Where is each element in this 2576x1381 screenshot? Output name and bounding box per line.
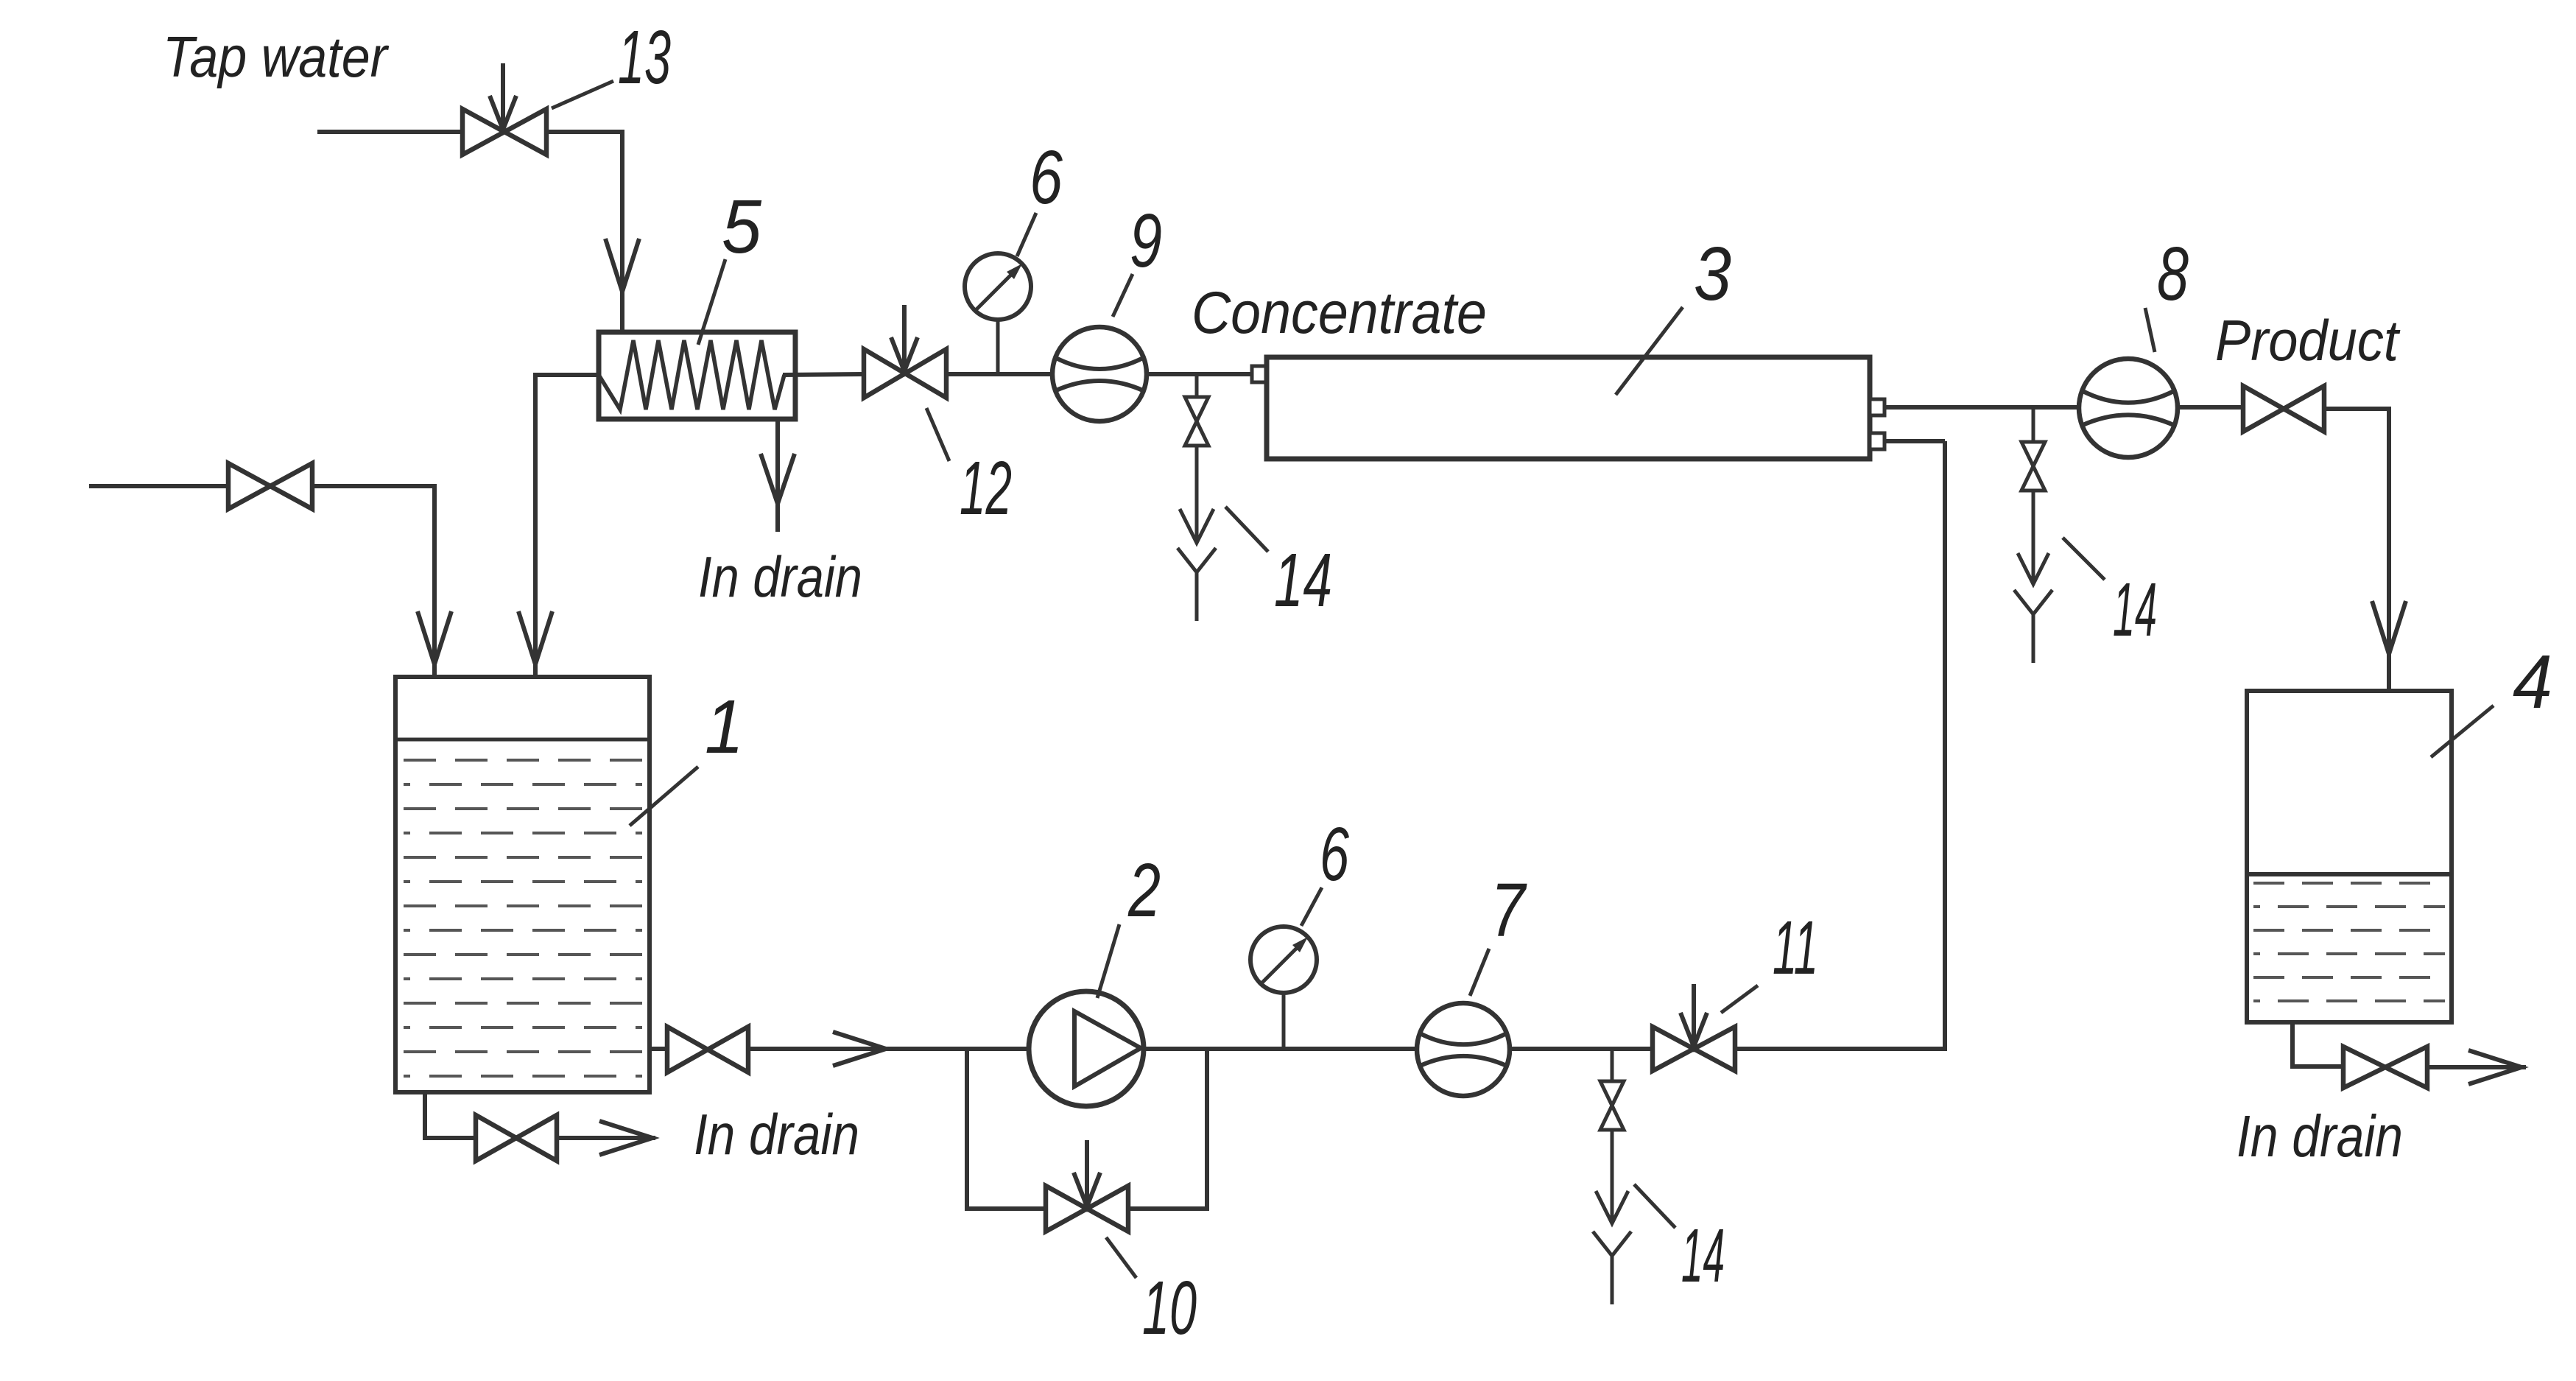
svg-text:9: 9 — [1130, 198, 1162, 283]
svg-text:6: 6 — [1030, 135, 1063, 219]
wire membrane lower port to return line — [1885, 439, 1945, 443]
tank 4 water dashes — [2253, 882, 2445, 885]
wire tank 4 drain out — [2428, 1065, 2526, 1069]
svg-text:11: 11 — [1773, 905, 1818, 990]
tank 1 shell — [395, 677, 650, 1092]
membrane module 3 shell — [1267, 357, 1870, 459]
wire to sample point (concentrate) — [1195, 446, 1199, 543]
flow arrow into tank 4 — [2372, 601, 2406, 654]
valve 13 stem arrow — [501, 63, 505, 130]
label 13 leader — [552, 81, 613, 108]
svg-text:In drain: In drain — [694, 1102, 859, 1167]
wire drain out — [557, 1136, 655, 1140]
svg-text:4: 4 — [2513, 639, 2552, 724]
tank 4 shell — [2247, 691, 2452, 1022]
svg-text:13: 13 — [618, 15, 671, 99]
svg-text:Product: Product — [2215, 308, 2401, 373]
tank 4 water level line — [2247, 872, 2452, 876]
label 11 leader — [1721, 985, 1758, 1013]
wire product valve to tank 4 — [2325, 409, 2389, 691]
valve 10 stem arrow — [1085, 1140, 1089, 1206]
label 1 leader — [630, 767, 698, 826]
flow arrow tank 4 drain — [2468, 1050, 2522, 1084]
label 3 leader — [1616, 307, 1683, 395]
flow arrow into tank 1 (left inlet) — [418, 611, 451, 664]
wire to sample point (product) — [2032, 491, 2035, 584]
svg-text:5: 5 — [722, 184, 762, 269]
flow arrow sampling (product) — [2018, 553, 2049, 584]
sample point Y 14 (concentrate) — [1178, 548, 1216, 572]
svg-text:12: 12 — [960, 446, 1012, 530]
svg-text:14: 14 — [1274, 538, 1332, 622]
wire flow meter 8 to product valve — [2178, 405, 2243, 410]
svg-text:3: 3 — [1694, 231, 1731, 316]
wire tank 1 drain — [425, 1092, 476, 1138]
wire valve13 to heat exchanger — [546, 132, 622, 332]
wire pump to flow meter 7 — [1144, 1047, 1417, 1051]
sample point Y 14 (bottom) — [1593, 1231, 1631, 1256]
needle valve sampling (bottom) — [1600, 1081, 1624, 1106]
svg-text:In drain: In drain — [698, 544, 862, 609]
heat exchanger 5 shell — [599, 332, 795, 419]
svg-text:8: 8 — [2157, 231, 2189, 316]
wire tank 4 drain — [2292, 1022, 2343, 1067]
valve tank 1 drain — [476, 1115, 516, 1161]
flow meter 9 — [1052, 327, 1147, 421]
wire needle valve to sample point — [1611, 1130, 1614, 1223]
wire gauge 6 top stem — [996, 320, 1000, 374]
label 12 leader — [926, 408, 949, 461]
svg-text:Tap water: Tap water — [163, 24, 390, 89]
wire tank 1 outlet — [650, 1047, 667, 1051]
label 14 product leader — [2063, 538, 2105, 580]
tank 1 water level line — [395, 738, 650, 742]
pressure gauge 6 (bottom) — [1250, 927, 1317, 993]
flow arrow sampling (bottom) — [1596, 1191, 1628, 1223]
wire membrane to flow meter 8 — [1885, 405, 2079, 410]
wire feed 2 inlet — [89, 484, 228, 488]
wire sampling branch (product) — [2032, 407, 2035, 442]
wire heat exchanger to tank 1 — [535, 375, 599, 677]
flow arrow to pump — [833, 1032, 886, 1066]
membrane module 3 left port — [1252, 366, 1267, 382]
wire flow meter 9 to membrane 3 — [1147, 372, 1253, 376]
label 10 leader — [1106, 1237, 1136, 1278]
needle valve sampling (product) — [2021, 442, 2045, 466]
flow arrow into tank 1 (right inlet) — [518, 611, 552, 664]
flow arrow tank 1 drain — [599, 1121, 652, 1155]
valve 11 stem arrow — [1692, 984, 1696, 1047]
flow arrow drain — [761, 454, 795, 504]
pressure gauge 6 (top) — [965, 253, 1031, 320]
wire valve 12 to flow meter 9 — [946, 372, 1052, 376]
valve product — [2243, 386, 2284, 432]
sample point Y 14 (product) — [2014, 590, 2052, 614]
membrane module 3 lower right port — [1870, 433, 1885, 449]
svg-text:In drain: In drain — [2237, 1103, 2403, 1169]
valve 12 stem arrow — [902, 305, 907, 371]
flow arrow down into heat exchanger — [605, 239, 639, 292]
wire pump bypass — [967, 1049, 1207, 1209]
wire outlet valve to pump — [748, 1047, 1029, 1051]
valve tank 1 outlet — [667, 1027, 708, 1072]
flow arrow sampling (concentrate) — [1180, 509, 1214, 543]
wire heat exchanger to drain — [775, 419, 780, 532]
tank 1 water dashes — [404, 759, 642, 762]
valve 12 — [864, 349, 905, 398]
svg-text:14: 14 — [1681, 1213, 1725, 1298]
wire valve 11 to membrane return — [1735, 441, 1945, 1049]
valve feed 2 — [228, 463, 270, 509]
wire flow meter 7 to valve 11 — [1510, 1047, 1653, 1051]
label 8 leader — [2145, 308, 2155, 352]
wire sampling branch (concentrate) — [1195, 374, 1199, 397]
flow meter 8 — [2079, 359, 2178, 457]
label 5 leader — [698, 259, 725, 345]
heat exchanger 5 coil — [599, 340, 784, 410]
svg-text:14: 14 — [2113, 567, 2157, 652]
valve 13 — [462, 109, 504, 155]
svg-text:10: 10 — [1142, 1265, 1197, 1350]
wire heat exchanger to valve 12 — [783, 374, 864, 375]
valve 11 — [1653, 1027, 1694, 1071]
svg-text:6: 6 — [1320, 812, 1349, 896]
svg-text:1: 1 — [705, 684, 744, 769]
pump 2 — [1029, 991, 1144, 1106]
svg-text:Concentrate: Concentrate — [1192, 280, 1487, 346]
valve tank 4 drain — [2343, 1047, 2385, 1088]
label 4 leader — [2431, 706, 2494, 757]
valve 10 — [1046, 1186, 1087, 1231]
label 14 concentrate leader — [1225, 507, 1268, 552]
svg-text:7: 7 — [1491, 868, 1527, 952]
label 6 bottom leader — [1301, 888, 1322, 926]
svg-text:2: 2 — [1127, 848, 1161, 932]
flow meter 7 — [1417, 1003, 1510, 1096]
wire sampling branch (bottom) — [1611, 1049, 1614, 1081]
label 2 leader — [1097, 924, 1119, 998]
label 14 bottom leader — [1634, 1184, 1675, 1228]
label 9 leader — [1113, 274, 1133, 317]
wire gauge 6 bottom stem — [1282, 992, 1286, 1048]
wire feed2 to tank 1 — [312, 486, 434, 677]
label 7 leader — [1470, 949, 1489, 996]
label 6 top leader — [1017, 213, 1036, 256]
wire tap-water inlet — [317, 130, 462, 134]
needle valve sampling (concentrate) — [1185, 397, 1208, 421]
membrane module 3 upper right port — [1870, 399, 1885, 415]
